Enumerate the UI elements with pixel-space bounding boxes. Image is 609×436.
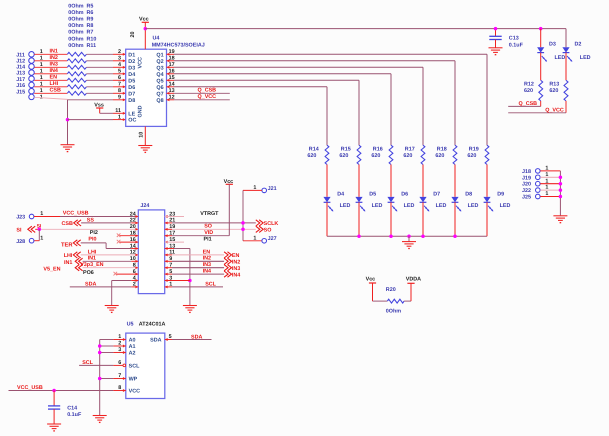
svg-text:SCL: SCL bbox=[205, 281, 216, 287]
svg-text:VCC: VCC bbox=[129, 389, 140, 395]
svg-text:D1: D1 bbox=[128, 52, 135, 58]
connector J18 pin 1 bbox=[522, 166, 560, 175]
wire U4 Q6 pin 14 to column bbox=[167, 82, 328, 146]
wire U4 Q4 pin 16 to column bbox=[167, 69, 392, 146]
resistor R9 label bbox=[68, 17, 93, 23]
wire IN3 from connector bbox=[34, 62, 67, 68]
svg-text:LED: LED bbox=[372, 203, 383, 209]
svg-text:SDA: SDA bbox=[150, 338, 161, 344]
svg-text:CSB: CSB bbox=[62, 221, 73, 227]
wire R18 to D8 bbox=[454, 165, 456, 197]
svg-text:7: 7 bbox=[118, 82, 121, 88]
svg-text:15: 15 bbox=[169, 75, 175, 81]
junction rail x359 bbox=[357, 234, 361, 238]
wire PI1 stub J24 pin 15 bbox=[165, 237, 212, 244]
svg-text:9: 9 bbox=[118, 95, 121, 101]
svg-text:R9: R9 bbox=[87, 17, 94, 23]
svg-text:D6: D6 bbox=[128, 85, 135, 91]
wire J block vertical bbox=[559, 171, 561, 216]
svg-text:620: 620 bbox=[549, 88, 558, 94]
capacitor C13 bbox=[489, 29, 523, 49]
wire J24 pin 4 to ground bbox=[112, 279, 139, 305]
connector J13 pin 1 bbox=[16, 69, 43, 77]
wire SCL to U5 pin 6 bbox=[79, 360, 126, 367]
svg-text:J15: J15 bbox=[16, 89, 25, 95]
svg-text:AT24C01A: AT24C01A bbox=[139, 322, 166, 328]
resistor R18 620 bbox=[435, 145, 457, 164]
svg-text:0Ohm: 0Ohm bbox=[68, 36, 83, 42]
svg-text:LHI: LHI bbox=[64, 253, 73, 259]
svg-text:0Ohm: 0Ohm bbox=[386, 309, 401, 315]
wire PO6 stub J24 pin 6 bbox=[83, 270, 138, 276]
LED D9 bbox=[483, 192, 510, 237]
wire EN J24 pin 11 bbox=[165, 249, 224, 256]
svg-text:LE: LE bbox=[128, 111, 135, 117]
offpage SI arrow bbox=[16, 226, 35, 233]
resistor R12 620 bbox=[524, 80, 543, 106]
svg-text:R16: R16 bbox=[373, 146, 383, 152]
resistor R7 0Ohm bbox=[67, 78, 86, 82]
resistor R7 label bbox=[68, 30, 93, 36]
svg-text:R12: R12 bbox=[524, 81, 534, 87]
svg-text:18: 18 bbox=[169, 56, 175, 62]
resistor R10 0Ohm bbox=[67, 85, 86, 89]
svg-text:620: 620 bbox=[467, 153, 476, 159]
svg-text:R19: R19 bbox=[469, 146, 479, 152]
junction pin3 riser bbox=[188, 279, 192, 283]
svg-text:Q3: Q3 bbox=[156, 65, 163, 71]
resistor R6 0Ohm bbox=[67, 59, 86, 63]
svg-text:Q8: Q8 bbox=[156, 98, 163, 104]
svg-text:R7: R7 bbox=[87, 30, 94, 36]
wire Q_CSB from U4 pin 13 bbox=[167, 88, 230, 95]
junction J block y190.1 bbox=[559, 188, 563, 192]
offpage IN3 arrow bbox=[224, 265, 240, 272]
connector J28 pin 1 bbox=[16, 235, 43, 244]
svg-text:VCC_USB: VCC_USB bbox=[17, 385, 43, 391]
wire IN1 from connector bbox=[34, 49, 67, 55]
svg-text:MM74HC573/SOEIAJ: MM74HC573/SOEIAJ bbox=[152, 43, 205, 49]
resistor R17 620 bbox=[403, 145, 425, 164]
svg-text:R13: R13 bbox=[549, 81, 559, 87]
junction U5 WP bbox=[98, 377, 102, 381]
power Vcc top bbox=[130, 17, 149, 50]
wire U5 WP pin 7 bbox=[100, 373, 126, 380]
svg-text:PO6: PO6 bbox=[83, 270, 94, 276]
junction J block y177.3 bbox=[559, 176, 563, 180]
resistor R8 0Ohm bbox=[67, 72, 86, 76]
LED D2 bbox=[562, 29, 590, 81]
svg-text:LHI: LHI bbox=[88, 249, 97, 255]
svg-text:A2: A2 bbox=[129, 351, 136, 357]
svg-text:4: 4 bbox=[118, 62, 121, 68]
wire R17 to D7 bbox=[422, 165, 424, 197]
wire SDA to J24 pin 2 bbox=[70, 281, 139, 288]
junction J block y183.7 bbox=[559, 182, 563, 186]
U4 refdes bbox=[152, 36, 205, 49]
svg-text:PI0: PI0 bbox=[88, 237, 96, 243]
junction OC/D8 bbox=[66, 118, 70, 122]
svg-text:IN4: IN4 bbox=[203, 269, 211, 275]
svg-text:IN2: IN2 bbox=[203, 256, 211, 262]
resistor R6 label bbox=[68, 10, 93, 16]
svg-text:IN1: IN1 bbox=[88, 256, 96, 262]
svg-text:LED: LED bbox=[500, 203, 511, 209]
wire R19 to D9 bbox=[486, 165, 488, 197]
svg-text:SS: SS bbox=[87, 217, 95, 223]
power VDDA bbox=[406, 277, 421, 302]
svg-text:J28: J28 bbox=[16, 239, 25, 245]
resistor R8 label bbox=[68, 23, 93, 29]
wire IN3 J24 pin 7 bbox=[165, 262, 224, 269]
svg-text:SO: SO bbox=[204, 224, 212, 230]
svg-text:J24: J24 bbox=[140, 203, 149, 209]
svg-text:J18: J18 bbox=[522, 169, 531, 175]
svg-text:R17: R17 bbox=[405, 146, 415, 152]
svg-text:Q_VCC: Q_VCC bbox=[198, 94, 217, 100]
svg-text:Vcc: Vcc bbox=[366, 277, 376, 283]
wire VID J24 pin 17 bbox=[165, 230, 230, 237]
svg-text:WP: WP bbox=[129, 377, 138, 383]
svg-text:IN3: IN3 bbox=[203, 262, 211, 268]
wire U4 Q2 pin 18 to column bbox=[167, 56, 456, 146]
connector J25 pin 1 bbox=[522, 191, 560, 200]
svg-text:2: 2 bbox=[118, 341, 121, 347]
svg-text:R15: R15 bbox=[341, 146, 351, 152]
svg-text:D9: D9 bbox=[497, 192, 504, 198]
svg-text:11: 11 bbox=[115, 108, 121, 114]
wire U5 A2 pin 3 bbox=[100, 347, 126, 354]
connector J17 pin 1 bbox=[16, 75, 43, 83]
svg-text:19: 19 bbox=[169, 49, 175, 55]
wire R15 to D5 bbox=[358, 165, 360, 197]
svg-text:620: 620 bbox=[524, 88, 533, 94]
connector J12 pin 1 bbox=[16, 56, 43, 65]
svg-text:C14: C14 bbox=[67, 406, 77, 412]
connector J20 pin 1 bbox=[522, 178, 560, 187]
svg-text:Q_CSB: Q_CSB bbox=[198, 88, 217, 94]
resistor R5 0Ohm bbox=[67, 52, 86, 56]
wire PI2 stub J24 pin 18 bbox=[90, 230, 139, 237]
wire Vss to U4 LE bbox=[100, 108, 126, 115]
svg-text:LED: LED bbox=[404, 203, 415, 209]
svg-text:0.1uF: 0.1uF bbox=[67, 412, 82, 418]
svg-text:D2: D2 bbox=[575, 42, 582, 48]
svg-text:7: 7 bbox=[118, 373, 121, 379]
ground C14 bbox=[47, 424, 61, 431]
svg-text:IN1: IN1 bbox=[64, 260, 72, 266]
svg-text:1: 1 bbox=[40, 235, 43, 241]
wire IN1 to J24 pin 10 bbox=[83, 256, 139, 263]
svg-text:Q2: Q2 bbox=[156, 59, 163, 65]
svg-text:D3: D3 bbox=[549, 42, 556, 48]
wire SDA from U5 pin 5 bbox=[165, 334, 212, 341]
wire SCLK J24 pin 21 bbox=[165, 221, 256, 224]
eeprom U5 AT24C01A body bbox=[126, 333, 165, 398]
power Vss bbox=[94, 102, 104, 113]
wire U5 A1 pin 2 bbox=[100, 341, 126, 348]
svg-text:EN: EN bbox=[232, 253, 240, 259]
wire LHI to J24 pin 12 bbox=[81, 249, 139, 256]
wire to U4 pin 8 bbox=[86, 88, 125, 95]
junction Vcc rail bbox=[144, 27, 148, 31]
svg-text:620: 620 bbox=[339, 153, 348, 159]
svg-text:IN3: IN3 bbox=[232, 266, 240, 272]
connector J16 pin 1 bbox=[16, 82, 43, 89]
U5 refdes bbox=[127, 322, 166, 328]
ground J24 right bbox=[183, 306, 197, 313]
junction SCLK riser bbox=[241, 221, 245, 225]
svg-text:Q7: Q7 bbox=[156, 91, 163, 97]
resistor R20 0Ohm bbox=[373, 287, 412, 315]
wire U5 address rail bbox=[99, 340, 101, 416]
svg-text:J23: J23 bbox=[16, 215, 25, 221]
wire LED cathode rail bbox=[327, 235, 487, 237]
wire V3p3_EN to J24 pin 8 bbox=[80, 262, 138, 269]
LED D7 bbox=[419, 192, 446, 237]
svg-text:Q_VCC: Q_VCC bbox=[545, 107, 564, 113]
svg-text:D3: D3 bbox=[128, 65, 135, 71]
LED D5 bbox=[355, 192, 382, 237]
junction rail ground bbox=[407, 234, 411, 238]
wire SS to J24 pin 22 bbox=[81, 217, 138, 224]
junction D3 rail bbox=[539, 27, 543, 31]
resistor R15 620 bbox=[339, 145, 361, 164]
wire Vcc rail bbox=[145, 28, 566, 30]
svg-text:J14: J14 bbox=[16, 65, 25, 71]
svg-text:A1: A1 bbox=[129, 344, 136, 350]
svg-text:D2: D2 bbox=[128, 59, 135, 65]
wire J21 riser bbox=[243, 190, 262, 240]
svg-text:5: 5 bbox=[169, 334, 172, 340]
resistor R10 label bbox=[68, 36, 96, 42]
svg-text:R20: R20 bbox=[386, 287, 396, 293]
LED D6 bbox=[387, 192, 414, 237]
svg-text:VCC_USB: VCC_USB bbox=[63, 210, 89, 216]
offpage CSB arrow bbox=[62, 220, 82, 227]
svg-text:D8: D8 bbox=[128, 98, 135, 104]
svg-text:R18: R18 bbox=[437, 146, 447, 152]
svg-text:J25: J25 bbox=[522, 195, 531, 201]
svg-text:SCL: SCL bbox=[82, 360, 93, 366]
wire OC to junction bbox=[68, 114, 126, 121]
svg-text:Q6: Q6 bbox=[156, 85, 163, 91]
wire to U4 pin 2 bbox=[86, 49, 125, 56]
svg-text:U4: U4 bbox=[153, 36, 160, 42]
ground C13 bbox=[489, 48, 503, 55]
svg-text:EN: EN bbox=[203, 249, 211, 255]
svg-text:IN4: IN4 bbox=[50, 68, 58, 74]
svg-text:J13: J13 bbox=[16, 71, 25, 77]
connector J24 body bbox=[130, 210, 176, 294]
offpage LHI arrow bbox=[64, 252, 81, 259]
svg-text:PI2: PI2 bbox=[90, 230, 98, 236]
svg-text:SO: SO bbox=[264, 228, 272, 234]
wire SO J24 pin 19 bbox=[165, 224, 256, 231]
wire IN4 from connector bbox=[34, 68, 67, 74]
svg-text:0Ohm: 0Ohm bbox=[68, 10, 83, 16]
ground U4 OC bbox=[61, 145, 75, 152]
svg-text:3: 3 bbox=[118, 56, 121, 62]
connector J14 pin 1 bbox=[16, 62, 43, 71]
svg-text:SCL: SCL bbox=[129, 363, 140, 369]
junction U5 A1 bbox=[98, 344, 102, 348]
connector J15 pin 1 bbox=[16, 88, 43, 95]
svg-text:D4: D4 bbox=[128, 72, 135, 78]
junction rail x423 bbox=[421, 234, 425, 238]
J24 refdes bbox=[140, 203, 149, 209]
ground LED rail bbox=[402, 242, 416, 249]
svg-text:VTRGT: VTRGT bbox=[200, 211, 219, 217]
wire R14 to D4 bbox=[326, 165, 328, 197]
svg-text:V3p3_EN: V3p3_EN bbox=[80, 262, 103, 268]
svg-text:LHI: LHI bbox=[50, 81, 59, 87]
LED D4 bbox=[323, 192, 350, 237]
wire D8 net / OC tie bbox=[34, 95, 126, 145]
resistor R11 label bbox=[68, 43, 96, 49]
wire U5 A0 pin 1 bbox=[100, 334, 126, 341]
offpage V5_EN arrow bbox=[43, 265, 82, 273]
svg-text:V5_EN: V5_EN bbox=[43, 267, 60, 273]
junction rail x455 bbox=[453, 234, 457, 238]
svg-text:620: 620 bbox=[307, 153, 316, 159]
svg-text:0Ohm: 0Ohm bbox=[68, 4, 83, 10]
wire SI to J24 pin 20 bbox=[35, 224, 138, 231]
svg-text:Q1: Q1 bbox=[156, 52, 163, 58]
wire EN from connector bbox=[34, 75, 67, 81]
power Vcc J24 bbox=[224, 179, 234, 236]
svg-text:IN1: IN1 bbox=[50, 49, 58, 55]
wire to U4 pin 6 bbox=[86, 75, 125, 82]
svg-text:SDA: SDA bbox=[85, 281, 96, 287]
wire VCC_USB to J24 pin 24 bbox=[34, 210, 138, 218]
svg-text:J11: J11 bbox=[16, 52, 25, 58]
svg-text:IN2: IN2 bbox=[50, 55, 58, 61]
junction rail x391 bbox=[389, 234, 393, 238]
LED D8 bbox=[451, 192, 478, 237]
svg-text:D5: D5 bbox=[128, 78, 135, 84]
svg-text:IN2: IN2 bbox=[232, 260, 240, 266]
svg-text:0Ohm: 0Ohm bbox=[68, 43, 83, 49]
svg-text:D6: D6 bbox=[401, 192, 408, 198]
wire J24 pin 3 bbox=[165, 279, 190, 282]
wire TER to J24 pin 14 bbox=[81, 243, 139, 250]
offpage TER arrow bbox=[61, 240, 81, 249]
svg-text:R6: R6 bbox=[87, 10, 94, 16]
svg-text:VCC: VCC bbox=[137, 57, 143, 68]
junction C14 bbox=[52, 389, 56, 393]
op-amp U4 MM74HC573 body bbox=[126, 49, 167, 126]
svg-text:1: 1 bbox=[118, 334, 121, 340]
wire SCL J24 pin 1 bbox=[165, 281, 223, 288]
resistor R9 0Ohm bbox=[67, 65, 86, 69]
svg-text:LED: LED bbox=[555, 55, 566, 61]
svg-text:6: 6 bbox=[118, 360, 121, 366]
wire U4 Q5 pin 15 to column bbox=[167, 75, 360, 145]
svg-text:LED: LED bbox=[436, 203, 447, 209]
svg-text:Q5: Q5 bbox=[156, 78, 163, 84]
svg-text:VID: VID bbox=[204, 230, 213, 236]
svg-text:D4: D4 bbox=[337, 192, 344, 198]
wire PI0 stub J24 pin 16 bbox=[88, 237, 138, 244]
svg-text:D5: D5 bbox=[369, 192, 376, 198]
wire Q_VCC from U4 pin 12 bbox=[167, 94, 230, 101]
ground J block bbox=[553, 216, 567, 223]
svg-text:VDDA: VDDA bbox=[406, 277, 421, 283]
svg-text:J20: J20 bbox=[522, 182, 531, 188]
resistor R11 0Ohm bbox=[67, 91, 86, 95]
wire VCC_USB rail U5 bbox=[9, 385, 126, 392]
resistor R13 620 bbox=[549, 80, 568, 113]
svg-text:D8: D8 bbox=[465, 192, 472, 198]
svg-text:GND: GND bbox=[137, 105, 143, 117]
svg-text:620: 620 bbox=[435, 153, 444, 159]
power Vcc R20 bbox=[366, 277, 377, 302]
svg-text:16: 16 bbox=[169, 69, 175, 75]
svg-text:0.1uF: 0.1uF bbox=[509, 42, 524, 48]
svg-text:6: 6 bbox=[118, 75, 121, 81]
junction U5 A2 bbox=[98, 351, 102, 355]
svg-text:R10: R10 bbox=[87, 36, 97, 42]
connector J22 pin 1 bbox=[522, 185, 560, 194]
junction SI J28 bbox=[38, 228, 42, 232]
svg-text:5: 5 bbox=[118, 69, 121, 75]
resistor R19 620 bbox=[467, 145, 489, 164]
resistor R14 620 bbox=[307, 145, 329, 164]
wire U4 Q3 pin 17 to column bbox=[167, 62, 424, 145]
junction SO riser bbox=[241, 228, 245, 232]
svg-text:8: 8 bbox=[118, 385, 121, 391]
offpage IN4 arrow bbox=[224, 271, 240, 278]
wire U4 Q1 pin 19 to column bbox=[167, 49, 488, 145]
svg-text:IN3: IN3 bbox=[50, 62, 58, 68]
svg-text:J19: J19 bbox=[522, 175, 531, 181]
svg-text:13: 13 bbox=[169, 88, 175, 94]
junction C13 rail bbox=[494, 27, 498, 31]
svg-text:LED: LED bbox=[580, 55, 591, 61]
svg-text:620: 620 bbox=[371, 153, 380, 159]
capacitor C14 bbox=[48, 391, 82, 425]
wire Q_CSB right bbox=[508, 101, 541, 107]
svg-text:0Ohm: 0Ohm bbox=[68, 17, 83, 23]
ground U4 bbox=[138, 146, 152, 153]
wire to U4 pin 3 bbox=[86, 56, 125, 63]
svg-text:10: 10 bbox=[138, 132, 144, 138]
svg-text:SDA: SDA bbox=[191, 334, 202, 340]
svg-text:R5: R5 bbox=[87, 4, 94, 10]
svg-text:J27: J27 bbox=[268, 236, 277, 242]
wire J28 riser bbox=[34, 229, 39, 240]
svg-text:SI: SI bbox=[16, 228, 22, 234]
wire to U4 pin 4 bbox=[86, 62, 125, 69]
svg-text:OC: OC bbox=[128, 118, 136, 124]
svg-text:J22: J22 bbox=[522, 188, 531, 194]
junction J block y196.5 bbox=[559, 195, 563, 199]
svg-text:14: 14 bbox=[169, 82, 175, 88]
wire J24 pin 13 to ground bbox=[165, 247, 190, 305]
svg-text:20: 20 bbox=[130, 32, 136, 38]
svg-text:3: 3 bbox=[118, 347, 121, 353]
svg-text:1: 1 bbox=[253, 236, 256, 242]
wire VTRGT stub J24 pin 23 bbox=[165, 211, 219, 218]
wire U4 pin 10 to ground bbox=[138, 126, 145, 145]
svg-text:D7: D7 bbox=[433, 192, 440, 198]
svg-text:0Ohm: 0Ohm bbox=[68, 30, 83, 36]
wire rail to ground bbox=[408, 236, 410, 241]
offpage SO arrow bbox=[256, 226, 272, 233]
connector J19 pin 1 bbox=[522, 172, 560, 181]
svg-text:D7: D7 bbox=[128, 91, 135, 97]
